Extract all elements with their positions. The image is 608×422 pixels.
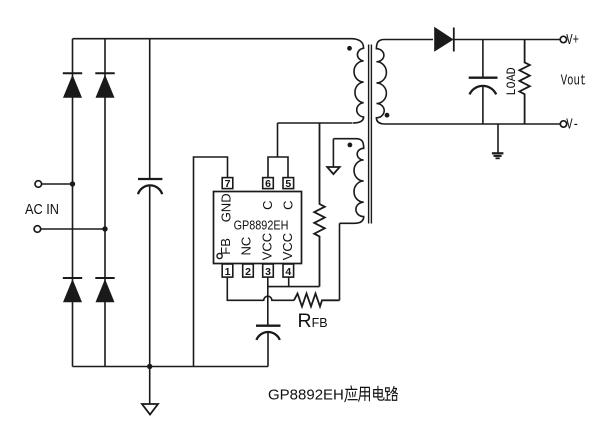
terminal AC input 1 xyxy=(35,181,73,188)
transformer T1 primary winding xyxy=(351,39,364,123)
node junction dot ground tap xyxy=(147,364,152,369)
node junction dot AC2 xyxy=(102,226,107,231)
terminal V- xyxy=(560,121,566,127)
pin 2 box xyxy=(243,264,254,277)
pin 7 box xyxy=(222,178,233,189)
wire bridge left column xyxy=(72,39,74,367)
svg-text:GP8892EH: GP8892EH xyxy=(234,219,289,233)
char 用 xyxy=(359,387,370,401)
pin 1 box xyxy=(222,264,233,277)
resistor R1 (startup, vertical) xyxy=(314,123,325,287)
diode D1 xyxy=(63,73,82,98)
transformer T1 secondary winding xyxy=(376,40,433,125)
wire top DC+ rail xyxy=(73,38,352,40)
svg-text:RFB: RFB xyxy=(298,310,328,332)
wire pins 6,5 bracket xyxy=(268,157,288,178)
caption chinese 应用电路 xyxy=(345,386,398,402)
capacitor C2 (VCC) xyxy=(256,326,281,367)
svg-text:Vout: Vout xyxy=(561,72,587,89)
svg-text:VCC: VCC xyxy=(280,233,295,260)
wire RFB to aux winding xyxy=(339,223,341,300)
svg-text:GP8892EH: GP8892EH xyxy=(268,387,344,404)
svg-text:6: 6 xyxy=(265,178,271,190)
wire bridge second column xyxy=(104,39,106,367)
char 电 xyxy=(374,386,384,400)
wire output V+ xyxy=(454,39,560,41)
ground arrow (primary side) xyxy=(142,369,158,415)
wire pin3 down xyxy=(267,277,269,326)
svg-text:5: 5 xyxy=(285,178,291,190)
earth ground output xyxy=(492,124,504,158)
char 应 xyxy=(345,386,357,402)
svg-text:C: C xyxy=(260,201,275,210)
ground arrow aux xyxy=(327,139,340,174)
wire FB pin1 to RFB with hop xyxy=(227,277,294,300)
wire pin4 stem xyxy=(288,277,290,286)
resistor RFB xyxy=(294,294,340,307)
resistor R2 LOAD xyxy=(519,40,529,125)
polarity dot aux xyxy=(348,143,353,148)
svg-text:GND: GND xyxy=(219,193,234,222)
svg-text:VCC: VCC xyxy=(260,233,275,260)
terminal AC input 2 xyxy=(34,226,105,233)
wire GND pin7 to DC- rail xyxy=(194,157,228,367)
pin FB inversion bubble xyxy=(217,253,222,258)
svg-text:LOAD: LOAD xyxy=(504,67,519,95)
char 路 xyxy=(385,387,397,401)
diode D3 xyxy=(63,278,82,302)
pin 5 box xyxy=(283,178,294,189)
terminal V+ xyxy=(560,36,566,42)
wire bottom DC- rail xyxy=(73,366,269,368)
pin 4 box xyxy=(283,264,294,277)
svg-text:3: 3 xyxy=(265,266,271,278)
op IC U1 GP8892EH body xyxy=(214,192,302,264)
wire primary-bottom node xyxy=(278,122,353,124)
svg-text:7: 7 xyxy=(225,178,231,190)
svg-text:AC IN: AC IN xyxy=(25,200,59,217)
pin 3 box xyxy=(263,264,274,277)
svg-text:NC: NC xyxy=(239,237,254,256)
transformer T1 core xyxy=(369,45,372,224)
svg-text:C: C xyxy=(280,201,295,210)
svg-text:V-: V- xyxy=(566,116,579,133)
polarity dot primary xyxy=(347,46,352,51)
polarity dot secondary xyxy=(385,113,390,118)
svg-text:2: 2 xyxy=(245,266,251,278)
wire VCC pins 3,4 to resistor bottom xyxy=(268,286,320,288)
svg-text:V+: V+ xyxy=(566,32,579,49)
transformer T1 aux winding xyxy=(333,139,363,224)
capacitor C3 output xyxy=(469,40,498,125)
wire output V- xyxy=(385,123,560,125)
diode D4 xyxy=(95,278,114,302)
svg-text:1: 1 xyxy=(225,266,231,278)
svg-text:4: 4 xyxy=(285,266,291,278)
capacitor C1 bulk xyxy=(138,39,162,367)
wire riser to primary bottom xyxy=(277,123,279,157)
svg-text:FB: FB xyxy=(218,238,233,255)
diode D2 xyxy=(95,73,114,98)
pin 6 box xyxy=(263,178,274,189)
node junction dot AC1 xyxy=(70,181,75,186)
diode D5 output xyxy=(434,27,454,52)
